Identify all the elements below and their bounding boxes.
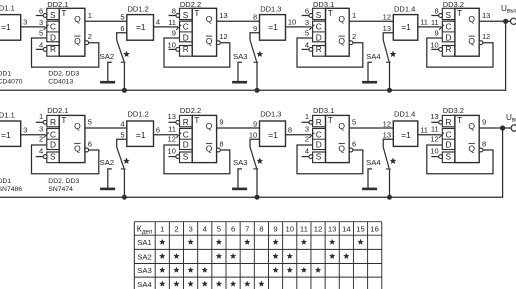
svg-text:8: 8: [288, 126, 292, 135]
wire SA3 to reset bus: [256, 169, 258, 197]
svg-text:T: T: [194, 115, 199, 125]
svg-text:SA3: SA3: [137, 266, 152, 275]
wire feedback Q-bar to D of DD2.2: [164, 38, 230, 67]
junction SA2/bus: [122, 88, 127, 93]
pin 2 (inverse Q output): [85, 41, 89, 45]
pin 8 (S input): [431, 15, 439, 17]
svg-text:8: 8: [435, 6, 439, 15]
pin 10 (R input): [169, 48, 177, 50]
svg-text:3: 3: [305, 125, 309, 134]
wire SA4 to reset bus: [389, 169, 391, 197]
svg-text:2: 2: [174, 225, 178, 234]
svg-text:12: 12: [482, 32, 490, 41]
table mark SA2 col 1: [160, 254, 165, 259]
wire feedback Q-bar to D of DD3.1: [297, 38, 363, 67]
ground: [232, 188, 247, 191]
svg-text:=1: =1: [1, 130, 11, 140]
svg-text:T: T: [457, 8, 462, 18]
svg-text:1: 1: [305, 112, 309, 121]
table mark SA4 col 5: [216, 281, 221, 286]
svg-text:10: 10: [430, 146, 438, 155]
svg-text:=1: =1: [268, 130, 278, 140]
D flip-flop DD2.1 (bottom): [36, 112, 92, 163]
svg-text:6: 6: [305, 6, 309, 15]
D flip-flop DD3.2 (bottom): [430, 112, 486, 163]
ground: [232, 81, 247, 84]
pin 13 (R input): [431, 121, 439, 123]
svg-text:3: 3: [23, 18, 27, 27]
wire SA2 to reset bus: [123, 169, 125, 197]
svg-text:3: 3: [39, 125, 43, 134]
svg-text:9: 9: [253, 24, 257, 33]
svg-text:R: R: [316, 44, 322, 54]
svg-text:=1: =1: [1, 22, 11, 32]
table mark SA4 col 3: [188, 281, 193, 286]
svg-text:10: 10: [168, 40, 176, 49]
pin 6 (inverse Q output): [85, 148, 89, 152]
svg-text:=1: =1: [268, 22, 278, 32]
svg-text:Q: Q: [74, 121, 81, 131]
table mark SA3 col 3: [188, 267, 193, 272]
wire DD1.1 output to C of first flip-flop: [21, 134, 46, 136]
svg-text:T: T: [328, 115, 333, 125]
wire feedback Q-bar to D of DD3.1: [297, 145, 363, 174]
table mark SA1 col 15: [358, 239, 363, 244]
wire feedback Q-bar to D of DD3.2: [427, 145, 493, 174]
table mark SA1 col 5: [216, 239, 221, 244]
svg-text:10: 10: [285, 225, 294, 234]
svg-text:10: 10: [168, 146, 176, 155]
svg-text:11: 11: [431, 18, 439, 27]
pin 4 (S input): [302, 156, 310, 158]
pin 12 (inverse Q output): [479, 41, 483, 45]
junction SA4/bus: [387, 88, 392, 93]
svg-text:12: 12: [219, 32, 227, 41]
junction output node: [503, 19, 508, 24]
svg-text:DD1.1: DD1.1: [0, 110, 15, 119]
svg-text:DD1.1: DD1.1: [0, 3, 15, 12]
svg-text:11: 11: [168, 18, 176, 27]
svg-text:1: 1: [352, 11, 356, 20]
svg-text:Q: Q: [338, 36, 345, 46]
svg-text:SA2: SA2: [100, 52, 115, 61]
xor gate DD1.3 (bottom): [260, 110, 286, 147]
table mark SA1 col 1: [160, 239, 165, 244]
svg-text:Q: Q: [338, 143, 345, 153]
switch SA2 (top): [100, 40, 126, 62]
svg-text:5: 5: [120, 131, 124, 140]
svg-text:D: D: [183, 140, 189, 150]
pin 10 (S input): [169, 156, 177, 158]
table mark SA2 col 13: [330, 254, 335, 259]
svg-text:=1: =1: [401, 22, 411, 32]
svg-text:9: 9: [482, 118, 486, 127]
pin 1 (R input): [36, 121, 44, 123]
svg-text:4: 4: [156, 18, 160, 27]
svg-text:1: 1: [88, 11, 92, 20]
svg-text:R: R: [316, 117, 322, 127]
svg-text:4: 4: [39, 40, 43, 49]
ground: [100, 188, 115, 191]
asterisk mark of SA3: [257, 51, 263, 56]
svg-text:5: 5: [39, 29, 43, 38]
svg-text:12: 12: [430, 135, 438, 144]
svg-text:R: R: [50, 117, 56, 127]
table mark SA4 col 6: [230, 281, 235, 286]
table mark SA1 col 13: [330, 239, 335, 244]
wire feedback Q-bar to D of DD3.2: [427, 38, 493, 67]
wire input tap to switch SA4: [383, 33, 393, 40]
wire Q of DD3.2 to output terminal: [479, 20, 510, 22]
svg-text:DD2.2: DD2.2: [180, 0, 201, 9]
svg-text:12: 12: [383, 13, 391, 22]
svg-text:C: C: [446, 22, 452, 32]
svg-text:5: 5: [352, 118, 356, 127]
pin 10 (S input): [431, 156, 439, 158]
svg-text:DD2.2: DD2.2: [180, 106, 201, 115]
svg-text:D: D: [446, 140, 452, 150]
svg-text:D: D: [50, 33, 56, 43]
svg-text:10: 10: [249, 131, 257, 140]
wire input tap to switch SA3: [250, 139, 260, 147]
svg-text:DD3.2: DD3.2: [443, 106, 464, 115]
svg-text:=1: =1: [136, 22, 146, 32]
wire SA4 to ground: [368, 169, 372, 188]
table mark SA1 col 9: [273, 239, 278, 244]
xor gate DD1.4 (top): [393, 5, 418, 41]
svg-text:8: 8: [259, 225, 263, 234]
svg-text:11: 11: [431, 125, 439, 134]
svg-text:S: S: [183, 10, 189, 20]
svg-text:SA1: SA1: [137, 238, 152, 247]
svg-text:Q: Q: [468, 121, 475, 131]
svg-text:13: 13: [383, 131, 391, 140]
svg-text:12: 12: [314, 225, 323, 234]
svg-text:4: 4: [203, 225, 208, 234]
svg-text:DD3.2: DD3.2: [443, 0, 464, 9]
svg-text:R: R: [183, 44, 189, 54]
switch SA3 (bottom): [233, 147, 258, 169]
svg-text:3: 3: [188, 225, 192, 234]
wire input tap to switch SA2: [117, 139, 127, 147]
svg-text:5: 5: [305, 29, 309, 38]
svg-text:=1: =1: [401, 130, 411, 140]
svg-text:1: 1: [39, 112, 43, 121]
division-ratio table grid: [134, 222, 381, 289]
junction output node: [500, 125, 505, 130]
svg-text:Q: Q: [206, 36, 213, 46]
wire DD1.2 output to C of DD2.2: [154, 134, 179, 136]
svg-text:5: 5: [88, 118, 92, 127]
svg-text:C: C: [183, 22, 189, 32]
svg-text:S: S: [446, 151, 452, 161]
xor gate DD1.2 (top): [127, 5, 154, 41]
ground: [100, 81, 115, 84]
svg-text:DD1.3: DD1.3: [260, 5, 281, 14]
pin 4 (R input): [36, 48, 44, 50]
wire Q of DD3.1 to input of DD1.4: [349, 127, 393, 129]
wire Q of DD2.1 to input of DD1.2: [85, 20, 127, 22]
svg-text:C: C: [50, 22, 56, 32]
svg-text:C: C: [183, 130, 189, 140]
svg-text:Q: Q: [74, 36, 81, 46]
svg-text:2: 2: [39, 135, 43, 144]
svg-text:9: 9: [172, 29, 176, 38]
pin 12 (inverse Q output): [217, 41, 221, 45]
output terminal: [511, 125, 516, 131]
wire output feedback to bus: [0, 23, 506, 90]
svg-text:Q: Q: [74, 143, 81, 153]
svg-text:6: 6: [88, 139, 92, 148]
svg-text:SA2: SA2: [137, 252, 152, 261]
table mark SA2 col 14: [344, 254, 349, 259]
svg-text:13: 13: [328, 225, 337, 234]
wire input tap to switch SA3: [250, 33, 260, 40]
xor gate DD1.1 (bottom): [0, 110, 21, 146]
D flip-flop DD3.1 (top): [302, 6, 357, 56]
wire SA3 to ground: [238, 169, 242, 188]
table mark SA3 col 1: [160, 267, 165, 272]
svg-text:Q: Q: [468, 14, 475, 24]
svg-text:R: R: [50, 44, 56, 54]
table mark SA1 col 7: [245, 239, 250, 244]
table mark SA2 col 2: [174, 254, 179, 259]
svg-text:SA4: SA4: [137, 280, 152, 289]
svg-text:DD1.4: DD1.4: [394, 5, 415, 14]
wire Q of DD3.1 to input of DD1.4: [349, 20, 393, 22]
table mark SA2 col 5: [216, 254, 221, 259]
pin 4 (R input): [302, 48, 310, 50]
pin 11 (C input): [439, 25, 444, 30]
wire DD1.4 output to C of DD3.2: [418, 134, 441, 136]
pin 8 (inverse Q output): [479, 148, 483, 152]
D flip-flop DD3.1 (bottom): [302, 112, 357, 163]
switch SA4 (bottom): [366, 147, 391, 169]
wire DD1.1 output to C of first flip-flop: [21, 26, 46, 28]
asterisk mark of SA2: [124, 158, 130, 163]
pin 3 (C input): [309, 133, 314, 138]
svg-text:T: T: [328, 8, 333, 18]
wire Q of DD2.2 to input of DD1.3: [217, 127, 260, 129]
wire input tap to switch SA2: [117, 33, 127, 40]
svg-text:11: 11: [168, 125, 176, 134]
wire Q of DD2.2 to input of DD1.3: [217, 20, 260, 22]
pin 8 (S input): [169, 15, 177, 17]
svg-text:Q: Q: [206, 14, 213, 24]
svg-text:8: 8: [219, 139, 223, 148]
svg-text:Q: Q: [74, 14, 81, 24]
table mark SA3 col 9: [273, 267, 278, 272]
wire SA4 to ground: [368, 62, 372, 81]
svg-text:9: 9: [253, 119, 257, 128]
wire feedback Q-bar to D of DD2.1: [32, 38, 99, 67]
svg-text:2: 2: [352, 32, 356, 41]
xor gate DD1.3 (top): [260, 5, 286, 41]
svg-text:DD3.1: DD3.1: [313, 0, 334, 9]
svg-text:T: T: [61, 115, 66, 125]
svg-text:10: 10: [288, 18, 296, 27]
D flip-flop DD3.2 (top): [430, 6, 490, 56]
svg-text:DD1.4: DD1.4: [394, 110, 415, 119]
svg-text:C: C: [316, 130, 322, 140]
ground: [362, 81, 377, 84]
svg-text:13: 13: [482, 11, 490, 20]
svg-text:14: 14: [342, 225, 351, 234]
svg-text:16: 16: [370, 225, 379, 234]
svg-text:13: 13: [219, 11, 227, 20]
wire SA2 to reset bus: [123, 62, 125, 90]
svg-text:S: S: [316, 151, 322, 161]
output terminal: [510, 18, 516, 24]
wire output feedback to bus: [0, 130, 503, 197]
svg-text:S: S: [446, 10, 452, 20]
wire feedback Q-bar to D of DD2.2: [164, 145, 230, 174]
switch SA3 (top): [233, 40, 258, 62]
svg-text:S: S: [316, 10, 322, 20]
xor gate DD1.1 (top): [0, 3, 21, 40]
svg-text:C: C: [446, 130, 452, 140]
svg-text:DD2.1: DD2.1: [47, 106, 68, 115]
svg-text:Q: Q: [206, 143, 213, 153]
svg-text:SA3: SA3: [233, 52, 248, 61]
svg-text:SN7474: SN7474: [48, 186, 73, 193]
table mark SA3 col 4: [202, 267, 207, 272]
svg-text:Q: Q: [338, 121, 345, 131]
svg-text:11: 11: [420, 18, 428, 27]
table mark SA4 col 2: [174, 281, 179, 286]
wire SA2 to ground: [108, 169, 112, 188]
svg-text:3: 3: [39, 18, 43, 27]
asterisk mark of SA4: [390, 51, 396, 56]
pin 3 (C input): [309, 25, 314, 30]
svg-text:DD1: DD1: [0, 71, 11, 78]
svg-text:T: T: [61, 8, 66, 18]
svg-text:11: 11: [300, 225, 308, 234]
svg-text:C: C: [316, 22, 322, 32]
svg-text:Q: Q: [206, 121, 213, 131]
svg-text:10: 10: [430, 40, 438, 49]
svg-text:DD1.2: DD1.2: [128, 5, 149, 14]
svg-text:12: 12: [383, 119, 391, 128]
junction SA2/bus: [122, 195, 127, 200]
table mark SA2 col 6: [230, 254, 235, 259]
table mark SA2 col 9: [273, 254, 278, 259]
pin 11 (C input): [176, 25, 181, 30]
pin 1 (R input): [302, 121, 310, 123]
svg-text:R: R: [446, 117, 452, 127]
svg-text:DD2, DD3: DD2, DD3: [48, 178, 79, 185]
svg-text:15: 15: [356, 225, 365, 234]
ground: [362, 188, 377, 191]
table mark SA1 col 11: [301, 239, 306, 244]
svg-text:S: S: [183, 151, 189, 161]
svg-text:12: 12: [168, 135, 176, 144]
svg-text:CD4070: CD4070: [0, 79, 23, 86]
svg-text:6: 6: [156, 126, 160, 135]
pin 13 (R input): [169, 121, 177, 123]
svg-text:SA3: SA3: [233, 158, 248, 167]
D flip-flop DD2.2 (top): [168, 6, 228, 56]
junction SA4/bus: [387, 195, 392, 200]
svg-text:Q: Q: [468, 36, 475, 46]
asterisk mark of SA4: [390, 158, 396, 163]
svg-text:4: 4: [305, 146, 309, 155]
table mark SA3 col 11: [301, 267, 306, 272]
svg-text:T: T: [194, 8, 199, 18]
svg-text:4: 4: [120, 119, 124, 128]
svg-text:13: 13: [383, 24, 391, 33]
svg-text:9: 9: [435, 29, 439, 38]
svg-text:D: D: [316, 33, 322, 43]
table mark SA4 col 1: [160, 281, 165, 286]
wire SA4 to reset bus: [389, 62, 391, 90]
svg-text:1: 1: [160, 225, 164, 234]
svg-text:CD4013: CD4013: [48, 79, 73, 86]
svg-text:S: S: [50, 151, 56, 161]
wire SA2 to ground: [108, 62, 112, 81]
table mark SA4 col 7: [245, 281, 250, 286]
svg-text:9: 9: [219, 118, 223, 127]
svg-text:DD1.3: DD1.3: [260, 110, 281, 119]
wire Q of DD2.1 to input of DD1.2: [85, 127, 127, 129]
pin 6 (S input): [36, 15, 44, 17]
svg-text:SA4: SA4: [366, 158, 381, 167]
asterisk mark of SA2: [124, 51, 130, 56]
svg-text:7: 7: [245, 225, 249, 234]
switch SA4 (top): [366, 40, 391, 62]
pin 3 (C input): [44, 133, 49, 138]
svg-text:Q: Q: [338, 14, 345, 24]
svg-text:DD2.1: DD2.1: [47, 0, 68, 9]
pin 6 (inverse Q output): [349, 148, 353, 152]
svg-text:Q: Q: [468, 143, 475, 153]
svg-text:6: 6: [39, 6, 43, 15]
wire SA3 to reset bus: [256, 62, 258, 90]
svg-text:=1: =1: [136, 130, 146, 140]
junction SA3/bus: [255, 195, 260, 200]
pin 3 (C input): [44, 25, 49, 30]
svg-text:11: 11: [420, 126, 428, 135]
xor gate DD1.4 (bottom): [393, 110, 418, 147]
svg-text:D: D: [316, 140, 322, 150]
svg-text:4: 4: [39, 146, 43, 155]
svg-text:T: T: [457, 115, 462, 125]
table mark SA3 col 12: [315, 267, 320, 272]
svg-text:C: C: [50, 130, 56, 140]
svg-text:6: 6: [352, 139, 356, 148]
svg-text:S: S: [50, 10, 56, 20]
svg-text:13: 13: [430, 112, 438, 121]
xor gate DD1.2 (bottom): [127, 110, 154, 147]
table mark SA1 col 3: [188, 239, 193, 244]
svg-text:SN7486: SN7486: [0, 186, 22, 193]
table mark SA3 col 2: [174, 267, 179, 272]
pin 4 (S input): [36, 156, 44, 158]
svg-text:6: 6: [231, 225, 235, 234]
svg-text:DD3.1: DD3.1: [313, 106, 334, 115]
table mark SA4 col 4: [202, 281, 207, 286]
table mark SA4 col 8: [259, 281, 264, 286]
svg-text:D: D: [183, 33, 189, 43]
wire DD1.3 output to C of DD3.1: [286, 26, 312, 28]
svg-text:DD2, DD3: DD2, DD3: [48, 71, 79, 78]
svg-text:9: 9: [273, 225, 277, 234]
pin 10 (R input): [431, 48, 439, 50]
pin 11 (C input): [176, 133, 181, 138]
wire feedback Q-bar to D of DD2.1: [32, 145, 99, 174]
D flip-flop DD2.1 (top): [36, 6, 92, 56]
svg-text:8: 8: [482, 139, 486, 148]
